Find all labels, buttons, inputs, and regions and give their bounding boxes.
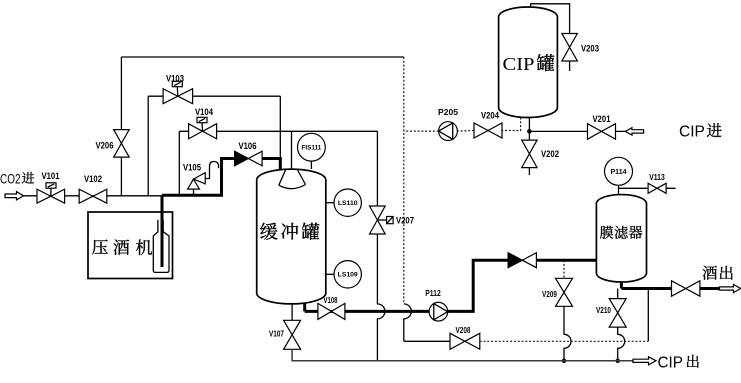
- valve wine-out: [672, 281, 700, 296]
- svg-text:V201: V201: [593, 114, 611, 124]
- wire thick pump discharge: [448, 260, 509, 311]
- inst LS110 stem: [326, 202, 334, 204]
- svg-text:V210: V210: [596, 305, 611, 315]
- svg-text:P114: P114: [611, 169, 627, 176]
- pump P112: [429, 302, 448, 321]
- svg-text:V103: V103: [166, 74, 184, 84]
- arrow wine-out: [720, 284, 741, 292]
- inst LS109 stem: [326, 273, 334, 275]
- wire V203 drain: [569, 61, 571, 71]
- svg-text:V108: V108: [324, 295, 338, 305]
- wire bottom CIP return: [292, 349, 633, 361]
- node dot V210: [616, 359, 620, 363]
- valve V113: [648, 183, 666, 193]
- wire CIP vertical dashed: [403, 57, 405, 304]
- text wine-out: [703, 266, 717, 280]
- funnel nozzle: [279, 170, 306, 189]
- wire thick tank outlet: [305, 304, 429, 312]
- wire V208 line left: [404, 340, 450, 342]
- wire V207 column: [377, 131, 385, 360]
- wire V103 line: [148, 95, 280, 97]
- svg-text:V204: V204: [481, 111, 499, 121]
- svg-text:LS110: LS110: [338, 200, 358, 207]
- wire V113 line: [619, 187, 676, 189]
- arrow CIP-in: [625, 128, 643, 135]
- svg-text:V209: V209: [542, 289, 557, 299]
- wire thick to filter: [537, 259, 597, 262]
- valve V103: [163, 89, 193, 104]
- wire riser V206: [120, 57, 122, 196]
- tank CIP: [499, 7, 558, 118]
- wire top CIP supply line: [121, 56, 403, 58]
- arrow CO2 inlet: [5, 192, 24, 200]
- svg-text:V203: V203: [581, 44, 599, 54]
- wire riser V104: [178, 131, 180, 194]
- valve V105: [188, 173, 206, 190]
- wire V107 stem: [291, 304, 293, 321]
- wire CIP suction dashed: [404, 118, 521, 132]
- inst FIS111: [298, 133, 326, 161]
- tank buffer: [257, 169, 326, 304]
- svg-text:V113: V113: [649, 173, 665, 182]
- valve V206: [114, 130, 130, 158]
- valve V202: [522, 140, 537, 168]
- node CIP junction: [527, 129, 532, 134]
- wire drop V103-V106: [279, 96, 281, 158]
- bottle: [153, 220, 169, 273]
- wire V208 dashed return: [480, 340, 649, 342]
- svg-text:CO2: CO2: [0, 172, 21, 187]
- valve V101: [37, 189, 65, 203]
- valve V203: [562, 34, 578, 62]
- tank filter: [596, 195, 646, 282]
- pump P205: [439, 122, 458, 141]
- valve V210: [609, 299, 626, 328]
- wire funnel feed: [291, 131, 293, 171]
- svg-text:V206: V206: [96, 141, 114, 151]
- wire V210 branch: [618, 289, 625, 361]
- valve V207: [370, 206, 386, 234]
- wire V202 drain: [528, 168, 530, 176]
- valve V204: [474, 123, 502, 138]
- actuator V103: [176, 87, 179, 96]
- svg-text:CIP: CIP: [658, 355, 684, 372]
- inst LS109: [334, 261, 361, 288]
- arrow CIP-out: [633, 357, 656, 365]
- svg-text:FIS111: FIS111: [301, 144, 321, 151]
- svg-text:V107: V107: [269, 329, 284, 339]
- text huan-chong-guan: [260, 223, 277, 240]
- wire thick to tank top: [262, 159, 280, 170]
- valve V106 check: [235, 151, 249, 166]
- wire V209 branch: [563, 260, 565, 278]
- svg-text:V104: V104: [195, 107, 213, 117]
- svg-text:CIP: CIP: [503, 54, 535, 74]
- wire V104 line: [179, 130, 377, 132]
- svg-text:CIP: CIP: [679, 124, 705, 141]
- valve V104: [189, 124, 217, 139]
- inst LS110: [334, 189, 361, 216]
- svg-text:V208: V208: [456, 325, 471, 335]
- wire CIP tank top vent: [531, 4, 570, 34]
- svg-text:V207: V207: [396, 216, 414, 226]
- inst P114: [605, 157, 633, 185]
- svg-text:P112: P112: [425, 288, 441, 298]
- svg-text:V202: V202: [541, 149, 559, 159]
- box wine press: [88, 212, 173, 279]
- wire CIP inlet line: [529, 118, 625, 141]
- text ya-jiu-ji: [92, 239, 108, 254]
- wire riser V103: [147, 96, 149, 196]
- actuator V104: [201, 123, 204, 131]
- svg-text:V105: V105: [183, 163, 201, 173]
- actuator V101: [50, 189, 52, 197]
- wire dip tube thick: [161, 196, 164, 267]
- wire main CO2 pipe: [24, 195, 163, 197]
- wire thick press header: [162, 159, 235, 196]
- svg-text:LS109: LS109: [338, 272, 358, 279]
- text mo-lv-qi: [600, 226, 613, 239]
- svg-text:V106: V106: [239, 141, 257, 151]
- inst P114 stem: [618, 185, 620, 194]
- valve V107: [284, 320, 301, 349]
- valve V102: [79, 189, 107, 203]
- svg-text:V101: V101: [42, 171, 60, 181]
- valve V208: [450, 333, 480, 349]
- svg-text:V102: V102: [84, 174, 102, 184]
- valve V108: [318, 303, 345, 319]
- wire thick filter outlet: [621, 282, 719, 289]
- valve check to filter: [508, 253, 522, 268]
- node dot V209: [562, 359, 566, 363]
- actuator V207: [377, 219, 387, 221]
- inst FIS111 stem: [310, 161, 312, 169]
- valve V209: [556, 278, 573, 306]
- valve V201: [588, 124, 616, 140]
- svg-text:P205: P205: [438, 107, 458, 117]
